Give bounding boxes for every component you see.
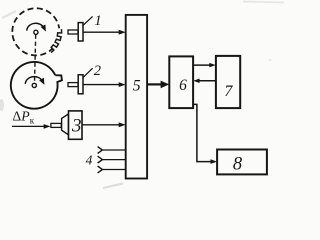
svg-text:6: 6 [179,77,187,94]
svg-text:7: 7 [224,83,233,100]
svg-text:5: 5 [133,78,141,95]
svg-text:1: 1 [94,13,102,29]
rotation arrow of wheel 2 [25,77,44,85]
sensor 2 body [78,75,83,94]
wire block3 to block5 [82,124,120,126]
input wire 4c with chevron [98,166,103,173]
leader line to label 1 [83,16,93,25]
thick wire block5 to block6 [147,83,161,85]
rotor wheel 1 (dashed circle, toothed) [12,8,66,55]
shaft centre of wheel 2 [32,83,36,87]
rotor wheel 2 (solid circle, single tooth) [11,62,62,109]
svg-text:3: 3 [71,116,82,137]
leader line to label 2 [83,68,93,77]
faint scan smudges [2,11,16,18]
wire sensor2 to block5 [83,84,120,86]
shaft centre of wheel 1 [34,30,38,34]
svg-text:8: 8 [233,154,243,174]
block 6 [169,56,193,108]
svg-text:2: 2 [94,63,101,79]
shaft axis (dashed line between wheels) [35,35,36,83]
wire block7 to block6 [199,80,216,82]
block 8 [217,150,267,175]
sensor 2 probe stub [68,83,78,87]
wire block6 down to block8 [193,104,211,161]
transducer 3 probe stub [51,123,61,127]
transducer block 3 [69,111,83,139]
wire deltaP input arrow [12,125,45,127]
svg-text:4: 4 [86,153,93,168]
wire sensor1 to block5 [83,31,120,33]
sensor 1 probe stub [68,30,78,34]
rotation arrow of wheel 1 [27,23,46,31]
input wire 4b with chevron [98,156,103,163]
input wire 4a with chevron [98,147,103,154]
block 5 [126,15,147,179]
transducer 3 horn [62,114,69,135]
block 7 [216,56,240,108]
wire block6 to block7 [193,64,210,66]
sensor 1 body [78,23,83,41]
